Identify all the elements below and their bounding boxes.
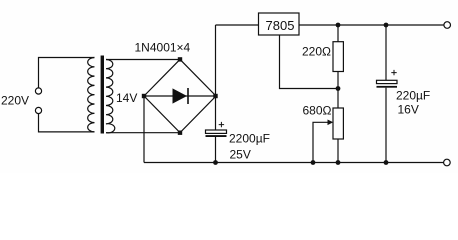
wire RP1 bottom to bottom rail [337, 139, 339, 163]
junction dot C1 bottom rail [213, 160, 218, 165]
wire R1 bottom to RP1 top [337, 72, 339, 109]
regulator U1 7805 box [259, 13, 300, 35]
wire top rail to R1 [337, 25, 339, 42]
bridge corner node right [213, 94, 217, 98]
wire primary bottom [39, 114, 95, 132]
wire DC minus from left corner down [143, 96, 145, 163]
diode triangle [173, 88, 188, 103]
svg-text:2200µF: 2200µF [229, 132, 270, 146]
wire RP1 wiper [313, 122, 329, 162]
bridge rectifier diamond [144, 59, 216, 132]
wire C1 to bottom rail [215, 137, 217, 163]
capacitor C2 plus mark [391, 70, 396, 75]
220V input terminal top [35, 88, 41, 94]
capacitor C1 2200uF bottom plate [206, 135, 227, 137]
potentiometer RP1 680 ohm body [333, 108, 343, 139]
svg-text:680Ω: 680Ω [303, 104, 332, 118]
220V input terminal bottom [35, 107, 41, 113]
transformer T1 secondary winding [106, 60, 115, 133]
capacitor C1 2200uF top plate [206, 130, 227, 133]
bridge corner node top [178, 57, 182, 61]
transformer T1 core [101, 56, 104, 134]
junction dot RP1 bottom rail [336, 160, 341, 165]
wire 7805 ground pin [280, 35, 339, 89]
wiper arrowhead [328, 120, 334, 126]
capacitor C2 220uF bottom plate [377, 86, 398, 88]
resistor R1 220 ohm body [333, 42, 343, 72]
wire secondary top to bridge top corner [106, 59, 180, 61]
bridge corner node left [142, 94, 146, 98]
junction dot C2 top rail [384, 23, 389, 28]
capacitor C2 220uF top plate [377, 80, 398, 83]
top rail right of 7805 [299, 24, 444, 26]
junction dot R1 top rail [336, 23, 341, 28]
diode anode-cathode line [144, 95, 216, 97]
bottom rail [144, 162, 444, 164]
junction dot wiper bottom rail [311, 160, 316, 165]
capacitor C1 plus mark [219, 122, 224, 127]
wire right corner down to C1 [215, 96, 217, 130]
svg-text:220V: 220V [1, 94, 29, 108]
svg-text:1N4001×4: 1N4001×4 [135, 41, 191, 55]
wire C2 to bottom rail [385, 88, 387, 163]
transformer T1 primary winding [88, 58, 95, 132]
wire secondary bottom to bridge bottom corner [106, 132, 180, 134]
svg-text:14V: 14V [116, 91, 137, 105]
wire primary top [39, 58, 95, 88]
wire top rail to C2 [385, 25, 387, 80]
svg-text:220Ω: 220Ω [302, 45, 331, 59]
output terminal bottom [444, 159, 451, 166]
output terminal top [444, 22, 451, 29]
junction dot C2 bottom rail [384, 160, 389, 165]
svg-text:16V: 16V [398, 103, 419, 117]
svg-text:220µF: 220µF [396, 89, 430, 103]
svg-text:7805: 7805 [266, 18, 295, 33]
diode cathode bar [187, 88, 189, 104]
wire DC plus vertical from right corner up to top rail [215, 25, 217, 96]
svg-text:25V: 25V [230, 148, 251, 162]
junction dot 7805 gnd R divider [336, 86, 341, 91]
top rail left of 7805 [216, 24, 259, 26]
bridge corner node bottom [178, 131, 182, 135]
